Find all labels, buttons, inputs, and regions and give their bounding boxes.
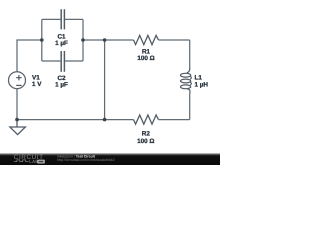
svg-text:R2: R2	[142, 131, 151, 138]
wire tap node C down to bottom rail	[104, 40, 106, 120]
wire loop right leg	[82, 19, 84, 61]
wire corner down to L1 top	[189, 40, 191, 67]
wire R1 to corner	[159, 39, 190, 41]
footer CircuitLab logo	[14, 154, 45, 164]
svg-text:1 µF: 1 µF	[55, 81, 68, 88]
voltage source V1	[9, 72, 26, 89]
wire bottom branch right of C2	[65, 60, 83, 62]
ground	[10, 120, 26, 135]
wire top branch right of C1	[65, 18, 83, 20]
node D junction dot (bottom rail)	[103, 118, 107, 122]
svg-text:1 V: 1 V	[32, 81, 42, 88]
wire loop left leg	[41, 19, 43, 61]
wire bottom branch left of C2	[42, 60, 61, 62]
node C junction dot	[103, 38, 107, 42]
svg-text:1 µF: 1 µF	[55, 40, 68, 47]
wire V1 top to node A	[17, 40, 42, 72]
wire L1 bottom to corner	[189, 95, 191, 120]
svg-text:100 Ω: 100 Ω	[137, 55, 154, 62]
capacitor C2	[61, 51, 64, 72]
wire bottom rail right of R2	[159, 119, 190, 121]
resistor R1	[134, 35, 159, 44]
inductor L1	[181, 67, 192, 95]
wire V1 bottom to ground rail	[16, 89, 18, 120]
node B junction dot	[81, 38, 85, 42]
svg-text:http://circuitlab.com/c/mbnsza: http://circuitlab.com/c/mbnszabdhbk2	[57, 158, 115, 162]
capacitor C1	[61, 9, 64, 29]
wire top branch left of C1	[42, 18, 61, 20]
node A junction dot	[40, 38, 44, 42]
svg-text:1 µH: 1 µH	[195, 81, 209, 88]
svg-text:L1: L1	[195, 74, 203, 81]
node E junction dot (ground)	[15, 118, 19, 122]
resistor R2	[134, 115, 159, 124]
svg-text:100 Ω: 100 Ω	[137, 138, 154, 145]
wire bottom rail left of R2	[17, 119, 134, 121]
wire node B to R1	[83, 39, 134, 41]
